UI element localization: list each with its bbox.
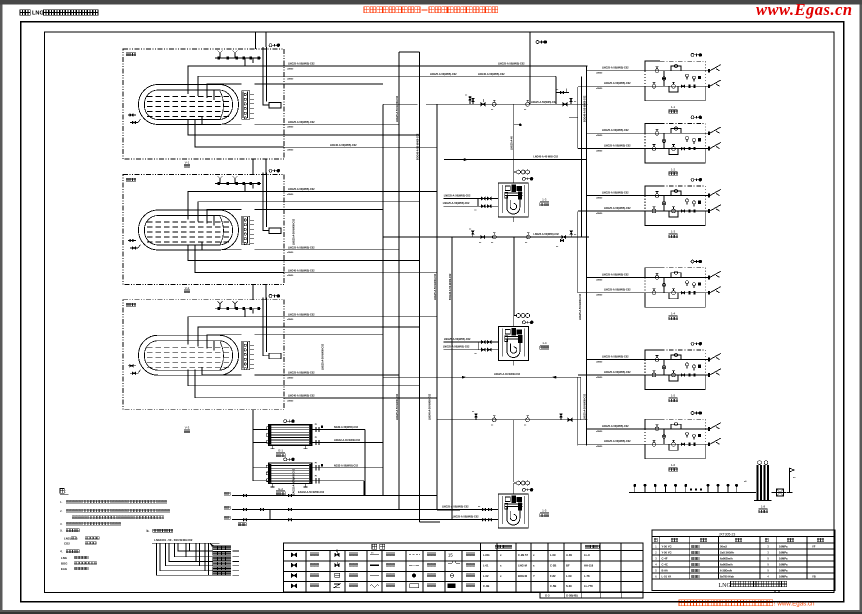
svg-text:LNG25-A-50(W65)-C02: LNG25-A-50(W65)-C02 — [443, 346, 470, 349]
bus rotated labels — [293, 95, 587, 495]
vaporizer unit E-3 internal pipes — [645, 191, 705, 217]
svg-text:16MPa: 16MPa — [779, 575, 788, 579]
vaporizer unit E-3 skid boundary — [645, 186, 705, 226]
svg-text:L-01 YA: L-01 YA — [662, 575, 672, 579]
air vaporizer E-2 outlet upper — [312, 463, 331, 471]
pump P-1 impeller hook — [507, 196, 520, 214]
svg-text:1-5: 1-5 — [542, 509, 547, 513]
vaporizer unit E-3 hose lower — [705, 205, 721, 213]
svg-text:HH-118: HH-118 — [584, 563, 594, 567]
svg-text:LL-9: LL-9 — [584, 553, 590, 557]
vaporizer unit E-1 skid boundary — [645, 61, 705, 101]
svg-text:LNG25-A-50(W65)-C02: LNG25-A-50(W65)-C02 — [288, 63, 315, 66]
svg-text:LNG25-A-50(W65)-C02: LNG25-A-50(W65)-C02 — [533, 233, 559, 236]
vaporizer unit E-2 vent symbol — [691, 116, 694, 119]
svg-text:LNG25-A-50(W65)-C02: LNG25-A-50(W65)-C02 — [443, 202, 470, 205]
media code line LNG liquid — [64, 536, 99, 540]
svg-text:LNG25-A-50(W65)-C02: LNG25-A-50(W65)-C02 — [604, 440, 631, 443]
tank V-1 inner shell — [145, 90, 233, 120]
svg-text:16MPa: 16MPa — [779, 569, 788, 573]
svg-text:xDN50: xDN50 — [596, 279, 603, 281]
svg-text:LNG25-A-50(W65)-C02: LNG25-A-50(W65)-C02 — [604, 82, 631, 85]
tank V-2 vapor goal-post piping — [263, 173, 269, 231]
pump P-3 vent symbol — [522, 488, 525, 491]
pump P-1 vent symbol — [522, 177, 525, 180]
legend right section entries — [483, 553, 594, 598]
main bus pipe 4 — [436, 104, 438, 510]
svg-text:16MPa: 16MPa — [779, 563, 788, 567]
svg-text:1.: 1. — [60, 500, 63, 504]
svg-text:LNG40-A-50(W65)-C02: LNG40-A-50(W65)-C02 — [288, 395, 315, 398]
svg-text:E-1: E-1 — [278, 449, 283, 453]
tank V-3 bottom nozzle pipes — [188, 368, 284, 398]
tank 2 outlet pipe 4 — [284, 247, 399, 255]
tank3 to air vaporizer drop pipe — [253, 410, 255, 481]
pump P-1 suction pipe lower — [443, 202, 499, 208]
vaporizer unit E-4 internal pipes — [645, 273, 705, 299]
tank V-3 head arc — [220, 342, 224, 370]
svg-text:LNG40-A-50(W65)-C02: LNG40-A-50(W65)-C02 — [288, 270, 315, 273]
vaporizer unit E-6 hose upper — [705, 423, 721, 431]
vaporizer unit E-1 tag label — [669, 105, 678, 113]
vaporizer unit E-5 hose upper — [705, 353, 721, 361]
svg-text:BOG40: BOG40 — [518, 574, 528, 578]
svg-text:xDN50: xDN50 — [287, 127, 294, 129]
tank 2 outlet pipe 5 — [284, 260, 419, 262]
vaporizer unit E-6 tag label — [669, 463, 678, 471]
feeder bracket units 1-2 — [577, 87, 579, 149]
vaporizer unit E-1 feed pipe upper — [587, 67, 646, 75]
legend symbols column 4 — [409, 555, 420, 588]
vaporizer unit E-3 feed pipe upper — [587, 192, 646, 200]
vaporizer unit E-6 vent symbol — [691, 412, 694, 415]
svg-text:LNG1001 - 50 - D10-W409-C02: LNG1001 - 50 - D10-W409-C02 — [154, 538, 193, 542]
tank 1 outlet pipe 1 — [284, 63, 588, 71]
svg-text:xDN50: xDN50 — [596, 431, 603, 433]
vaporizer unit E-5 valves — [652, 353, 696, 377]
svg-text:LNG40-A-50-W409-C02: LNG40-A-50-W409-C02 — [428, 393, 431, 420]
tank V-1 bottom nozzle pipes — [188, 117, 284, 147]
vaporizer unit E-2 skid boundary — [645, 124, 705, 164]
tank V-2 valve manifold bank — [242, 216, 255, 245]
svg-text:LNG25-A-50-W409-C02: LNG25-A-50-W409-C02 — [584, 393, 587, 420]
tank 3 outlet pipe 1 — [284, 313, 437, 321]
dispenser posts — [634, 484, 738, 492]
note line 2 — [60, 509, 170, 513]
svg-text:LNG25-A-50(W65)-C02: LNG25-A-50(W65)-C02 — [602, 129, 629, 132]
tank 1 outlet pipe 4 — [284, 121, 399, 129]
svg-text:EAG: EAG — [61, 567, 67, 571]
vaporizer unit E-4 hose upper — [705, 271, 721, 279]
pump P-1 riser and instrument bubbles — [514, 170, 530, 183]
svg-text:xDN50: xDN50 — [596, 135, 603, 137]
tank V-3 vent symbol — [269, 294, 272, 297]
vaporizer unit E-2 hose upper — [705, 127, 721, 135]
svg-text:xDN50: xDN50 — [287, 194, 294, 196]
vaporizer unit E-5 gauges — [686, 363, 701, 371]
svg-text:LNG25-A-50(W65)-C02: LNG25-A-50(W65)-C02 — [288, 313, 315, 316]
pump P-2 tag label — [540, 341, 549, 349]
tank V-1 bottom-left drain valves — [128, 114, 141, 124]
svg-text:xDN50: xDN50 — [287, 79, 294, 81]
bus pipe 2 top elbow — [399, 51, 419, 53]
tank V-1 vapor goal-post piping — [263, 47, 269, 105]
svg-text:LNG25-A-50-W409-C02: LNG25-A-50-W409-C02 — [293, 218, 296, 245]
vaporizer unit E-2 tag label — [669, 167, 678, 175]
pump P-3 box — [498, 494, 528, 528]
manifold C valve group 1 — [472, 411, 477, 420]
vaporizer unit E-3 tag label — [669, 230, 678, 238]
svg-text:LNG(: LNG( — [64, 536, 71, 540]
feeder bracket units 5-6 — [577, 377, 579, 445]
bottom header valves — [243, 494, 492, 521]
pump P-2 suction pipe lower — [443, 346, 499, 352]
svg-text:xDN50: xDN50 — [596, 295, 603, 297]
svg-text:Sx8 3H5/Hr: Sx8 3H5/Hr — [720, 551, 734, 555]
vaporizer unit E-3 vent symbol — [691, 178, 694, 181]
tank unit 3 boundary — [123, 300, 284, 410]
svg-text:L-09: L-09 — [550, 553, 556, 557]
vent symbol top mid — [536, 41, 539, 44]
vaporizer unit E-3 feed pipe lower — [578, 207, 645, 215]
tank V-2 liquid level dashes — [147, 222, 230, 242]
tank V-2 vent symbol — [269, 169, 272, 172]
svg-text:xDN50: xDN50 — [596, 377, 603, 379]
svg-text:L-02: L-02 — [483, 574, 489, 578]
vent stack label — [759, 505, 768, 513]
svg-text:B-9A: B-9A — [662, 569, 668, 573]
tank 1 outlet pipe 5 — [284, 134, 419, 136]
vaporizer unit E-2 feed pipe lower — [578, 145, 645, 153]
tank V-2 bottom nozzle pipes — [188, 243, 284, 273]
pump P-3 internals — [502, 496, 524, 524]
svg-text:50m3: 50m3 — [720, 545, 727, 549]
svg-text:S-09: S-09 — [566, 584, 572, 588]
stub drop line x556 — [555, 76, 557, 104]
materials table drawing title — [719, 581, 787, 591]
tank V-1 vent symbol — [269, 44, 272, 47]
svg-text:LNG25-A-50(W65)-C02: LNG25-A-50(W65)-C02 — [602, 192, 629, 195]
tank V-2 top relief cluster — [215, 176, 261, 192]
svg-text:LNG25-A-50(W65)-C02: LNG25-A-50(W65)-C02 — [444, 338, 471, 341]
svg-text:xDN50: xDN50 — [596, 151, 603, 153]
tank V-2 bottom-left drain valves — [128, 239, 141, 249]
tank2 crossover pipe — [444, 156, 587, 161]
tank 2 outlet pipe 1 — [284, 188, 437, 196]
pipe designation legend text block — [213, 546, 231, 575]
air vaporizer E-1 tag label — [276, 449, 285, 457]
tank V-3 instrument box — [269, 353, 281, 359]
manifold A valve group 3 — [524, 100, 557, 111]
svg-text:www.Egas.cn: www.Egas.cn — [756, 0, 853, 19]
feeder valve cluster mid — [556, 239, 564, 248]
svg-text:LNG25-A-50-W409-C02: LNG25-A-50-W409-C02 — [579, 293, 582, 320]
svg-text:LNG25-A-50(W65)-C02: LNG25-A-50(W65)-C02 — [288, 372, 315, 375]
vaporizer unit E-6 feed pipe upper — [587, 425, 646, 433]
svg-text:xDN50: xDN50 — [287, 275, 294, 277]
tank 2 outlet pipe 2 — [284, 201, 419, 203]
manifold A valve group 2 — [491, 100, 496, 111]
svg-text::: : — [65, 489, 66, 494]
svg-text:1-3: 1-3 — [542, 198, 547, 202]
svg-text:xDN50: xDN50 — [596, 362, 603, 364]
tank V-2 head arc — [220, 217, 224, 245]
vaporizer unit E-4 feed pipe upper — [587, 273, 646, 281]
svg-text:BOG: BOG — [61, 561, 67, 565]
vent stack tower — [754, 461, 772, 501]
vaporizer unit E-5 hose lower — [705, 369, 721, 377]
svg-text:LNG25-A-50(W65)-C02: LNG25-A-50(W65)-C02 — [604, 289, 631, 292]
manifold A drop to pump P-1 — [514, 104, 522, 172]
manifold B drop to pump P-2 — [513, 237, 515, 316]
tank unit 1 boundary — [123, 49, 284, 159]
svg-text:LNG32-A-40-W409-C02: LNG32-A-40-W409-C02 — [334, 439, 361, 442]
tank V-2 label — [184, 286, 190, 293]
manifold A valve group 1 — [469, 96, 485, 106]
svg-text:1-2: 1-2 — [671, 167, 676, 171]
tank 2 outlet pipe 3 — [284, 209, 383, 211]
long line labels top — [478, 63, 525, 76]
equipment code line 1 — [61, 556, 88, 560]
svg-text:BOG40-A-50-W409-C02: BOG40-A-50-W409-C02 — [416, 133, 419, 160]
svg-text:1-1: 1-1 — [671, 105, 676, 109]
pipe designation heading b — [147, 529, 173, 533]
vent header top line — [256, 31, 531, 33]
svg-text:LNG25-A-40-W409-C02: LNG25-A-40-W409-C02 — [494, 373, 521, 376]
tank unit 2 boundary — [123, 175, 284, 285]
pump P-2 internals — [502, 329, 524, 357]
manifold C valve group 3 — [524, 416, 530, 427]
manifold header B y237 — [383, 236, 589, 238]
pump P-3 impeller hook — [507, 507, 520, 525]
svg-text:xDN50: xDN50 — [287, 252, 294, 254]
svg-text:LNG25-A-50(W65)-C02: LNG25-A-50(W65)-C02 — [602, 273, 629, 276]
air vaporizer E-2 inlet pipes — [255, 468, 268, 481]
tank 1 outlet pipe 2 — [284, 73, 556, 81]
svg-text:E-2: E-2 — [278, 487, 283, 491]
air vaporizer outlet runs — [331, 430, 383, 496]
svg-text:LNG25-A-50(W65)-C02: LNG25-A-50(W65)-C02 — [604, 207, 631, 210]
svg-text:LL-778: LL-778 — [584, 584, 593, 588]
air vaporizer E-2 body — [269, 463, 312, 484]
svg-text:xDN50: xDN50 — [287, 319, 294, 321]
svg-text:xDN50: xDN50 — [596, 88, 603, 90]
svg-text:LNG25-A-50(W65)-C02: LNG25-A-50(W65)-C02 — [602, 356, 629, 359]
air vaporizer E-1 legs — [271, 445, 308, 449]
svg-text:C-5B: C-5B — [550, 584, 556, 588]
svg-text:LNG25-A-50(W65)-C02: LNG25-A-50(W65)-C02 — [498, 63, 525, 66]
vaporizer unit E-6 valves — [652, 423, 696, 447]
vaporizer unit E-5 feed pipe lower — [578, 371, 645, 379]
red watermark bottom — [679, 600, 815, 608]
pump P-2 suction pipe upper — [443, 338, 498, 344]
main bus pipe 5 — [451, 237, 453, 520]
vent header riser mid — [529, 32, 531, 104]
svg-text:1-6: 1-6 — [671, 463, 676, 467]
air vaporizer E-1 body — [269, 425, 312, 446]
svg-text:V-1: V-1 — [185, 161, 190, 165]
svg-text:xDN50: xDN50 — [596, 446, 603, 448]
svg-text:LNG: LNG — [719, 583, 732, 589]
vaporizer unit E-6 feed pipe lower — [578, 440, 645, 448]
main bus pipe 2 — [398, 52, 400, 510]
manifold A stub valve left — [465, 95, 471, 105]
manifold C drop to pump P-3 — [513, 420, 515, 482]
materials table grid — [652, 530, 835, 591]
svg-text:xDN50: xDN50 — [596, 213, 603, 215]
svg-text:Y-50 YG: Y-50 YG — [662, 545, 672, 549]
svg-text:BF: BF — [566, 563, 570, 567]
svg-text:xDN50: xDN50 — [287, 68, 294, 70]
pump P-1 suction pipe upper — [443, 194, 498, 200]
tank V-1 head arc — [220, 91, 224, 119]
air vaporizer E-1 fin circles — [266, 427, 269, 444]
air vaporizer E-1 outlet lower — [312, 437, 331, 445]
svg-text:LNG40-A-50(W65)-C02: LNG40-A-50(W65)-C02 — [478, 73, 505, 76]
svg-text:F-82: F-82 — [550, 574, 556, 578]
svg-text:4.: 4. — [60, 550, 63, 554]
svg-text:YF: YF — [812, 545, 816, 549]
feeder valve cluster top — [556, 89, 569, 94]
vaporizer unit E-2 internal pipes — [645, 129, 705, 155]
svg-text:1-8: 1-8 — [761, 505, 766, 509]
svg-text:BOG40-A-50-W409-C02: BOG40-A-50-W409-C02 — [584, 95, 587, 122]
svg-text:L-NG: L-NG — [483, 553, 490, 557]
svg-text:15: 15 — [448, 553, 453, 558]
tank V-3 valve manifold bank — [242, 341, 255, 370]
vaporizer unit E-4 hose lower — [705, 287, 721, 295]
legend symbols column 2 — [334, 550, 340, 588]
svg-text:LNG25-A-50(W65)-C02: LNG25-A-50(W65)-C02 — [288, 247, 315, 250]
svg-text:LNG-M: LNG-M — [518, 563, 528, 567]
table callout text — [238, 523, 246, 526]
red banner text top — [364, 7, 498, 13]
vaporizer unit E-3 gauges — [686, 199, 701, 207]
svg-text:LNG: LNG — [61, 556, 67, 560]
svg-text:1-5: 1-5 — [671, 394, 676, 398]
svg-text:xDN50: xDN50 — [596, 198, 603, 200]
bottom header E to pump P-3 upper — [224, 505, 498, 511]
svg-text:NG32-A-50(W65)-C02: NG32-A-50(W65)-C02 — [334, 426, 359, 429]
svg-text:LNG25-A-50-W409-C02: LNG25-A-50-W409-C02 — [322, 343, 325, 370]
legend table header — [372, 544, 599, 549]
svg-text:16MPa: 16MPa — [779, 545, 788, 549]
tank 1 outlet pipe 3 — [284, 83, 383, 85]
vaporizer unit E-1 feed pipe lower — [578, 82, 645, 90]
pump P-2 vent symbol — [522, 321, 525, 324]
vaporizer unit E-4 valves — [652, 271, 696, 295]
svg-text:L-09: L-09 — [566, 574, 572, 578]
vaporizer unit E-5 tag label — [669, 394, 678, 402]
vaporizer unit E-1 internal pipes — [645, 66, 705, 92]
air vaporizer E-1 outlet upper — [312, 424, 331, 432]
vaporizer unit E-5 feed pipe upper — [587, 356, 646, 364]
notes heading — [60, 489, 69, 495]
svg-text:A-09: A-09 — [566, 553, 572, 557]
tank V-3 outer shell — [139, 335, 239, 375]
air vaporizer E-2 tag label — [276, 487, 285, 495]
vent pole — [787, 468, 795, 493]
svg-text:Y-50 YG: Y-50 YG — [662, 551, 672, 555]
vaporizer unit E-1 hose lower — [705, 80, 721, 88]
bottom header F to pump P-3 lower — [224, 515, 498, 521]
legend symbols column 3 — [370, 551, 379, 587]
tank V-3 inner shell — [145, 341, 233, 371]
svg-text:LNG25-A-50(W65)-C02: LNG25-A-50(W65)-C02 — [288, 121, 315, 124]
vaporizer unit E-4 vent symbol — [691, 260, 694, 263]
recycle header y377 with label — [383, 373, 581, 378]
svg-text:G-5B(4B): G-5B(4B) — [566, 594, 578, 598]
tank V-1 outer shell — [139, 85, 239, 125]
tank V-3 top nozzle pipes — [188, 317, 284, 351]
pump P-2 bottom stub — [513, 361, 515, 366]
svg-text:LNG25-A-50(W65)-C02: LNG25-A-50(W65)-C02 — [288, 188, 315, 191]
svg-text:8x780 H/ah: 8x780 H/ah — [720, 575, 734, 579]
manifold header C y419.8 — [437, 419, 588, 421]
tank V-2 instrument box — [269, 228, 281, 234]
media code line CO2 — [64, 541, 96, 545]
equipment code heading — [60, 550, 79, 554]
svg-text:L-01: L-01 — [483, 563, 489, 567]
pump P-1 internals — [502, 185, 524, 213]
svg-text:): ) — [77, 536, 78, 540]
svg-text:LNG25-A-50-W409-C02: LNG25-A-50-W409-C02 — [396, 95, 399, 122]
tank V-3 liquid level dashes — [147, 347, 230, 367]
svg-text:xDN50: xDN50 — [596, 73, 603, 75]
tank unit 2 area label — [126, 178, 136, 181]
inter-module link pipes 1-2 — [253, 159, 266, 175]
manifold B valve group 1 — [469, 229, 485, 244]
air vaporizer E-1 vent symbol — [284, 420, 287, 423]
vaporizer unit E-1 gauges — [686, 74, 701, 82]
vaporizer unit E-6 skid boundary — [645, 419, 705, 459]
vaporizer unit E-6 internal pipes — [645, 424, 705, 450]
materials table title row — [719, 532, 736, 536]
pump P-2 box — [498, 327, 528, 361]
tank V-1 top nozzle pipes — [188, 66, 284, 100]
svg-text:LNG40-A-50(W65)-C02: LNG40-A-50(W65)-C02 — [330, 144, 357, 147]
materials table column headers — [654, 538, 824, 541]
tank V-1 valve manifold bank — [242, 91, 255, 120]
svg-text:C-2B: C-2B — [550, 563, 556, 567]
svg-text:JXT305-23: JXT305-23 — [719, 532, 736, 536]
tank V-1 instrument box — [269, 103, 281, 109]
drawing title top-left — [20, 10, 98, 17]
pump P-3 tag label — [540, 509, 549, 517]
svg-text:2.: 2. — [60, 509, 63, 513]
pump P-3 riser and instrument bubbles — [514, 481, 530, 494]
tank unit 3 area label — [126, 303, 136, 306]
svg-text:LNG25-A-50(W65)-C02: LNG25-A-50(W65)-C02 — [452, 515, 479, 518]
manifold B valve group 4 — [562, 231, 577, 239]
tank 1 outlet pipe 6 — [284, 144, 437, 152]
tank V-1 label — [184, 161, 190, 168]
svg-text:1-3: 1-3 — [671, 230, 676, 234]
note line 4 — [60, 522, 121, 526]
svg-text:16MPa: 16MPa — [779, 551, 788, 555]
tank unit 1 area label — [126, 53, 136, 56]
main bus pipe 1 — [382, 104, 384, 495]
tank 3 outlet pipe 2 — [284, 326, 419, 328]
vent header riser tank1 — [255, 32, 257, 49]
vaporizer unit E-3 hose upper — [705, 189, 721, 197]
svg-text:V-3: V-3 — [185, 426, 190, 430]
air vaporizer E-2 vent symbol — [284, 458, 287, 461]
tank V-1 liquid level dashes — [147, 97, 230, 117]
vaporizer unit E-4 tag label — [669, 312, 678, 320]
svg-text:C-4F: C-4F — [662, 557, 668, 561]
tank V-3 vapor goal-post piping — [263, 298, 269, 356]
